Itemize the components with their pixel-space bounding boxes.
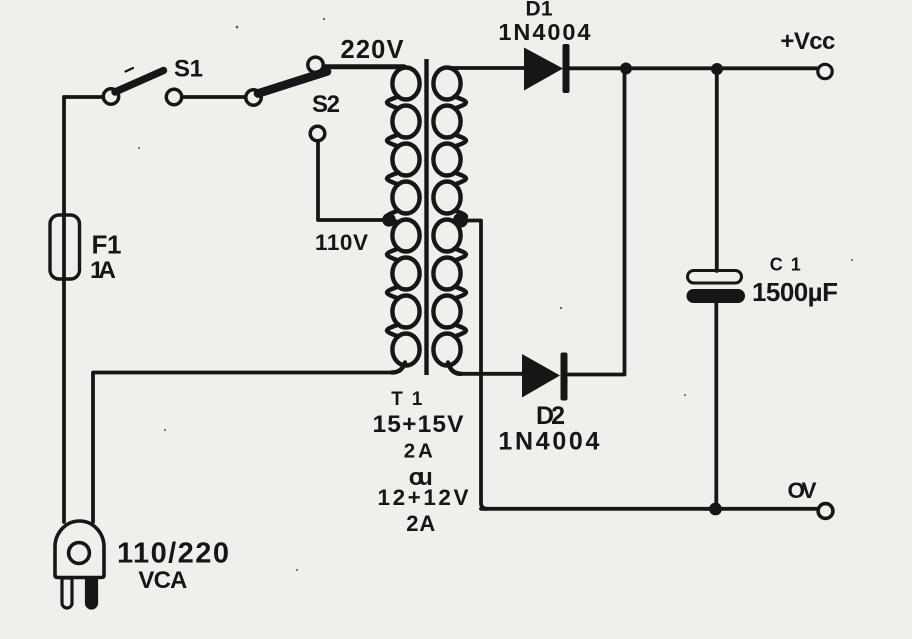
svg-text:1500µF: 1500µF [752, 277, 838, 307]
svg-text:D2: D2 [536, 402, 565, 430]
terminal +Vcc [818, 64, 832, 78]
plug 110/220 VCA [55, 521, 104, 608]
svg-text:F1: F1 [92, 230, 122, 260]
svg-text:D1: D1 [526, 0, 553, 21]
svg-text:VCA: VCA [138, 567, 187, 594]
node capacitor top junction [711, 63, 723, 75]
wire 0V rail to terminal [481, 507, 816, 511]
wire capacitor top lead [715, 69, 719, 271]
node primary 110V tap junction [382, 213, 396, 227]
terminal 0V [818, 504, 833, 519]
diode D1 [524, 44, 570, 93]
wire S2 lower throw down and right to 110V tap [318, 142, 384, 221]
node rectifier output junction [620, 63, 632, 75]
capacitor C1 [687, 271, 746, 304]
transformer T1 secondary winding [433, 68, 466, 374]
wire D1 cathode to +Vcc terminal [570, 66, 817, 70]
wire S1 left terminal stub [64, 95, 102, 99]
wire secondary bottom lead to D2 anode [459, 372, 523, 376]
svg-text:2A: 2A [406, 511, 435, 536]
svg-text:OV: OV [788, 478, 817, 503]
wire capacitor bottom lead [714, 303, 718, 509]
wire 220V tap to transformer primary top [325, 64, 404, 69]
node 0V capacitor junction [709, 503, 722, 516]
svg-text:S2: S2 [312, 91, 340, 118]
wire center tap right and down to 0V rail [462, 221, 487, 509]
wire D2 cathode right and up to +Vcc rail [568, 68, 625, 374]
wire secondary top lead to D1 anode [449, 66, 525, 70]
node secondary center tap junction [453, 213, 468, 228]
switch S2 [246, 57, 327, 141]
switch S1 [103, 68, 181, 105]
svg-text:110/220: 110/220 [117, 538, 229, 570]
svg-text:110V: 110V [315, 230, 368, 255]
svg-text:2A: 2A [404, 440, 433, 463]
fuse F1 [50, 215, 80, 279]
svg-text:1A: 1A [90, 257, 116, 284]
wire left vertical from S1 down through fuse to plug [62, 97, 66, 522]
wire S1 to S2 [183, 95, 245, 99]
svg-text:220V: 220V [341, 36, 404, 64]
paper specks [138, 18, 853, 571]
svg-text:S1: S1 [174, 56, 203, 83]
transformer T1 primary winding [387, 68, 420, 373]
svg-text:+Vcc: +Vcc [780, 28, 835, 55]
diode D2 [522, 353, 568, 401]
transformer core [424, 59, 428, 375]
wire primary bottom lead left and down to plug [93, 373, 394, 523]
